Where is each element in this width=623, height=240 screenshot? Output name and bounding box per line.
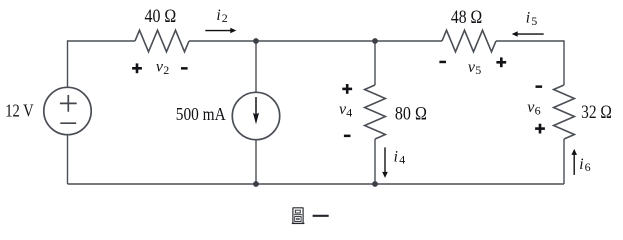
svg-text:6: 6 xyxy=(585,160,591,174)
svg-text:80 Ω: 80 Ω xyxy=(395,104,427,125)
svg-text:40 Ω: 40 Ω xyxy=(145,6,177,27)
svg-text:4: 4 xyxy=(346,106,352,120)
svg-text:5: 5 xyxy=(531,14,537,28)
svg-text:500 mA: 500 mA xyxy=(176,104,226,124)
svg-text:i: i xyxy=(579,156,583,173)
svg-text:6: 6 xyxy=(535,103,541,117)
svg-text:48 Ω: 48 Ω xyxy=(451,7,482,28)
svg-text:12 V: 12 V xyxy=(5,101,34,121)
svg-text:4: 4 xyxy=(399,153,405,167)
svg-text:i: i xyxy=(394,149,398,166)
svg-text:5: 5 xyxy=(475,63,481,77)
svg-text:2: 2 xyxy=(222,11,228,25)
svg-text:32 Ω: 32 Ω xyxy=(581,102,612,123)
svg-text:2: 2 xyxy=(163,63,169,77)
svg-text:i: i xyxy=(526,9,530,26)
svg-text:i: i xyxy=(216,7,220,24)
